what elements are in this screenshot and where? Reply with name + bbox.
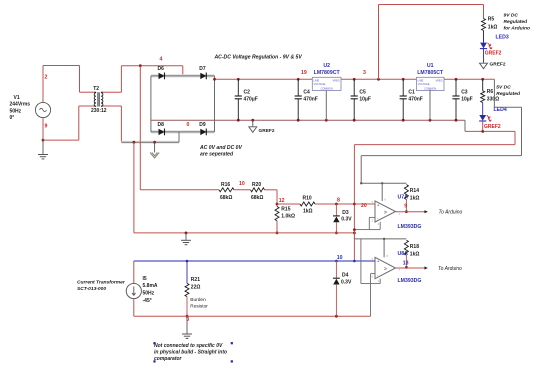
DC 0V rail (151, 119, 465, 121)
ground GREF2 top-right (480, 63, 488, 68)
svg-text:2: 2 (45, 75, 48, 81)
capacitor C3 (455, 79, 457, 96)
bridge rail halos (151, 74, 215, 77)
svg-text:To Arduino: To Arduino (439, 210, 463, 216)
mid supply link (353, 232, 355, 239)
wire: rail to R5 top loop (378, 5, 380, 80)
wire node 12 drop (276, 190, 278, 207)
diode D3 (335, 204, 337, 216)
svg-text:GREF2: GREF2 (485, 50, 502, 56)
svg-text:0: 0 (187, 122, 190, 128)
svg-text:D4: D4 (342, 272, 349, 278)
wire net to comparator input (354, 144, 515, 146)
svg-text:22Ω: 22Ω (191, 284, 201, 290)
resistor R20 (251, 188, 265, 192)
svg-text:VOLTAGE: VOLTAGE (418, 82, 430, 86)
resistor R10 (300, 202, 315, 206)
svg-text:LM7809CT: LM7809CT (314, 70, 341, 76)
bridge bottom rail (151, 131, 215, 133)
svg-text:470nF: 470nF (303, 96, 317, 102)
svg-text:GREF2: GREF2 (259, 128, 275, 134)
resistor R6 (482, 79, 484, 91)
svg-text:10: 10 (239, 181, 245, 187)
wire V1 bottom to primary (43, 139, 79, 141)
resistor R18 (404, 240, 408, 255)
svg-text:50Hz: 50Hz (10, 108, 22, 114)
svg-text:U1: U1 (427, 63, 434, 69)
regulator U2 LM7809CT (312, 77, 341, 90)
svg-text:for Arduino: for Arduino (504, 26, 530, 32)
svg-text:9: 9 (404, 203, 407, 209)
bridge top rail (151, 75, 215, 77)
svg-text:1kΩ: 1kΩ (488, 24, 498, 30)
svg-text:Not connected to specific 0V: Not connected to specific 0V (154, 343, 223, 349)
svg-text:1kΩ: 1kΩ (410, 251, 420, 257)
diode D7 (200, 73, 206, 79)
svg-text:9V DC: 9V DC (504, 13, 519, 19)
svg-text:8: 8 (337, 198, 340, 204)
svg-text:1kΩ: 1kΩ (303, 209, 313, 215)
capacitor C2 (237, 79, 239, 96)
bridge left vertical (150, 76, 152, 132)
wire U2 common to 0V (325, 91, 327, 121)
capacitor C4 (297, 79, 299, 96)
wire: node4 long vertical to divider (139, 66, 141, 190)
svg-text:LM393DG: LM393DG (398, 224, 422, 230)
svg-text:GREF2: GREF2 (484, 124, 501, 130)
diode D6 (159, 73, 165, 79)
svg-text:C5: C5 (359, 90, 366, 96)
svg-text:470nF: 470nF (408, 96, 422, 102)
wire: AC0V vertical to comparator 0V rail (133, 142, 135, 233)
R14 feed (360, 156, 362, 184)
svg-text:AC 0V and DC 0V: AC 0V and DC 0V (199, 145, 242, 151)
svg-text:10µF: 10µF (359, 96, 371, 102)
svg-text:R21: R21 (191, 277, 200, 283)
U8A minus input (371, 273, 376, 275)
resistor R15 (275, 207, 279, 221)
burden resistor R21 (186, 261, 188, 283)
wire node4 drop to bridge (182, 66, 184, 76)
wire net drop (514, 131, 516, 144)
comparator U8A (375, 257, 396, 278)
U8A output wire (396, 267, 428, 269)
svg-text:R14: R14 (410, 188, 419, 194)
svg-text:in physical build - Straight i: in physical build - Straight into (154, 350, 227, 356)
U7A gnd stub (379, 222, 381, 230)
svg-text:AC-DC Voltage Regulation - 9V: AC-DC Voltage Regulation - 9V & 5V (214, 54, 303, 60)
node 8 row (277, 203, 300, 205)
svg-text:are seperated: are seperated (200, 152, 234, 158)
svg-text:U2: U2 (323, 63, 330, 69)
svg-text:To Arduino: To Arduino (438, 266, 462, 272)
ground below V1 (42, 140, 44, 154)
resistor R5 (482, 19, 486, 31)
U7A minus pin (369, 216, 375, 218)
svg-text:LM393DG: LM393DG (398, 278, 422, 284)
svg-text:D8: D8 (158, 122, 165, 128)
ground chevron (AC 0V) (154, 142, 156, 152)
svg-text:Resistor: Resistor (190, 303, 208, 309)
svg-text:Regulated: Regulated (496, 91, 521, 97)
junction rail end (353, 232, 356, 235)
svg-text:19: 19 (301, 70, 307, 76)
svg-text:T2: T2 (93, 86, 99, 92)
svg-text:R6: R6 (487, 89, 494, 95)
svg-text:10: 10 (337, 255, 343, 261)
svg-text:68kΩ: 68kΩ (220, 195, 232, 201)
svg-text:5V DC: 5V DC (496, 84, 511, 90)
svg-text:330Ω: 330Ω (487, 96, 499, 102)
U8A gnd routing (360, 239, 362, 284)
capacitor C5 (353, 79, 355, 96)
svg-text:12: 12 (279, 198, 285, 204)
svg-text:244Vrms: 244Vrms (10, 102, 31, 108)
wire primary bottom riser (78, 106, 80, 140)
svg-text:R20: R20 (252, 182, 261, 188)
wire: secondary top to node 4 (103, 91, 121, 93)
svg-text:9: 9 (45, 124, 48, 130)
voltage source V1 (35, 102, 50, 117)
svg-text:1.0kΩ: 1.0kΩ (281, 213, 295, 219)
svg-text:>: > (384, 267, 387, 273)
svg-text:-45°: -45° (143, 298, 152, 304)
svg-text:R5: R5 (488, 17, 495, 23)
resistor R16 (219, 188, 234, 192)
diode D9 (200, 129, 206, 135)
svg-text:10µF: 10µF (461, 96, 473, 102)
wire LED4 to net (482, 121, 484, 131)
main 12V rail (214, 76, 216, 79)
svg-text:Burden: Burden (190, 297, 206, 303)
svg-text:D7: D7 (199, 66, 206, 72)
svg-text:13: 13 (403, 261, 409, 267)
wire LED4 net horizontal (465, 130, 515, 132)
svg-text:C2: C2 (244, 90, 251, 96)
svg-text:D9: D9 (199, 122, 206, 128)
svg-text:50Hz: 50Hz (143, 291, 155, 297)
node 10 wire (blue) (134, 260, 375, 262)
wire: V1 bottom (42, 118, 44, 141)
ground bottom (186, 316, 188, 334)
svg-text:LM7805CT: LM7805CT (417, 70, 444, 76)
comparator U7A (375, 201, 396, 222)
LED4 (479, 115, 486, 121)
svg-text:COMMON: COMMON (321, 86, 333, 90)
svg-text:SCT-013-000: SCT-013-000 (77, 286, 106, 292)
wire: 0V rail drop right (464, 120, 466, 131)
U7A input wires (354, 203, 375, 205)
svg-text:GREF2: GREF2 (490, 62, 506, 68)
svg-text:R16: R16 (221, 182, 230, 188)
wire R6 to LED4 (482, 103, 484, 116)
svg-text:5.8mA: 5.8mA (143, 283, 158, 289)
U8A V+ stub (383, 239, 385, 257)
diode D8 (159, 129, 165, 135)
svg-text:Regulated: Regulated (504, 19, 529, 25)
wire R5 to LED3 (483, 31, 485, 43)
wire long vertical to node 10/20 (353, 145, 355, 261)
LED3 (480, 43, 487, 49)
svg-text:comparator: comparator (154, 356, 183, 362)
svg-text:D3: D3 (342, 210, 349, 216)
svg-text:0.3V: 0.3V (341, 217, 352, 223)
diode D4 (335, 261, 337, 278)
svg-text:R10: R10 (303, 196, 312, 202)
wire LED3 to ground (483, 49, 485, 64)
svg-text:VREG: VREG (435, 79, 442, 83)
svg-text:V1: V1 (14, 95, 20, 101)
comparator 0V rail (134, 232, 355, 234)
divider row R16/R20 (140, 189, 219, 191)
wire: 5V to comparator supply (493, 79, 495, 107)
svg-text:4: 4 (160, 56, 163, 62)
svg-text:I5: I5 (143, 276, 147, 282)
ground GREF2 mid (252, 120, 254, 127)
current transformer I5 (133, 261, 135, 283)
regulator U1 LM7805CT (416, 77, 444, 90)
wire U1 common to 0V (429, 90, 431, 121)
svg-text:230:12: 230:12 (91, 108, 107, 114)
ground mid (comparator 0V) (185, 233, 187, 240)
svg-text:LED3: LED3 (496, 35, 509, 41)
wire bridge mid-bottom to AC0V (178, 132, 180, 142)
svg-text:0°: 0° (10, 115, 15, 121)
svg-text:C4: C4 (303, 90, 310, 96)
svg-text:Current Transformer: Current Transformer (77, 279, 126, 285)
svg-text:D6: D6 (158, 66, 165, 72)
wire AC0V horizontal (121, 141, 179, 143)
svg-text:R15: R15 (281, 207, 290, 213)
U7A output wire (396, 211, 428, 213)
wire: V1 top to transformer primary (42, 66, 44, 103)
resistor R14 (404, 185, 408, 200)
wire: secondary bottom (103, 105, 121, 107)
svg-text:68kΩ: 68kΩ (251, 195, 263, 201)
svg-text:1kΩ: 1kΩ (410, 195, 420, 201)
svg-text:C3: C3 (461, 90, 468, 96)
svg-text:C1: C1 (408, 90, 415, 96)
bridge right vertical (214, 76, 216, 132)
svg-text:>: > (384, 210, 387, 216)
junction node 4 (139, 64, 142, 67)
U7A V+ stub (381, 183, 383, 201)
svg-text:0.3V: 0.3V (341, 280, 352, 286)
current loop bottom rail (134, 315, 371, 317)
capacitor C1 (402, 79, 404, 96)
svg-text:R18: R18 (410, 244, 419, 250)
svg-text:470µF: 470µF (244, 96, 258, 102)
svg-text:VOLTAGE: VOLTAGE (314, 82, 326, 86)
junction V1 bottom (42, 139, 45, 142)
svg-text:VREG: VREG (332, 79, 339, 83)
svg-text:3: 3 (363, 70, 366, 76)
